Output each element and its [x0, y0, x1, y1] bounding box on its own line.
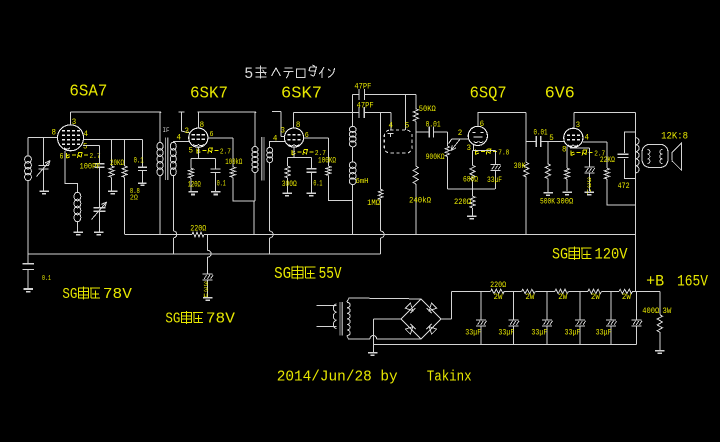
svg-text:0.1: 0.1: [134, 156, 144, 165]
tube 6SK7-2 internal grids: [287, 135, 300, 146]
svg-text:3: 3: [576, 121, 581, 130]
transformer OPT primary winding: [636, 138, 640, 173]
transformer PT secondary winding: [347, 302, 350, 335]
ground osc coil: [74, 232, 84, 235]
wire 6SK7-1 cathode: [191, 147, 216, 158]
wire IF coil bottom to SG bus: [352, 184, 354, 235]
label 33μF vertical (SG): [203, 281, 208, 299]
diode D4: [427, 324, 437, 334]
label pin 5 (detector): [405, 121, 410, 130]
label 33μF C1: [465, 328, 481, 337]
capacitor 47PF upper: [353, 89, 416, 100]
svg-text:3: 3: [185, 127, 190, 136]
wire B+ vertical to PSU: [635, 113, 637, 292]
inductor antenna coil L1: [25, 156, 32, 181]
capacitor 33μF filter C5: [606, 291, 617, 344]
inductor IF choke upper: [349, 126, 356, 146]
wire bridge negative to ground: [373, 319, 401, 352]
svg-text:22KΩ: 22KΩ: [600, 156, 615, 165]
wire PT secondary bottom to bridge: [347, 336, 421, 339]
svg-text:1MΩ: 1MΩ: [367, 199, 380, 208]
capacitor 47PF lower: [353, 107, 391, 118]
svg-text:8: 8: [52, 129, 57, 138]
label pin 4 (6SK7-2): [273, 135, 278, 144]
svg-text:6: 6: [305, 132, 309, 140]
label pin 5 (6V6): [549, 134, 554, 143]
svg-text:8: 8: [200, 121, 205, 130]
label 472: [618, 182, 630, 191]
variable capacitor VC1: [37, 161, 51, 177]
wire IFT2 primary bottom to SG bus: [253, 172, 256, 235]
resistor 50KΩ: [413, 95, 418, 133]
wire R2 to SG bus corner: [124, 177, 126, 234]
label 5球ヘテロダイン (title): [244, 65, 334, 83]
tube 6SQ7 envelope: [468, 126, 487, 145]
svg-text:220Ω: 220Ω: [490, 281, 506, 290]
label pin 3 (6SK7-2): [281, 127, 286, 136]
transformer PT primary leads: [317, 306, 337, 327]
svg-text:0.1: 0.1: [217, 179, 226, 188]
ground AVC cap: [24, 289, 34, 292]
label 33μF C5: [596, 328, 612, 337]
svg-text:5: 5: [83, 143, 88, 152]
resistor 500K (6V6 grid leak): [545, 142, 550, 192]
wire 100PF to VC2: [99, 167, 101, 208]
label 20KΩ: [110, 159, 124, 168]
svg-text:33μF: 33μF: [498, 328, 514, 337]
wire B+ top bus segment (6SA7 plate): [71, 111, 162, 113]
capacitor 33μF (6V6 cathode): [584, 167, 595, 191]
wire varcap VC1 lead: [43, 138, 45, 166]
label heater (6SK7-2): [292, 150, 326, 159]
label 400Ω 3W: [642, 307, 671, 316]
wire 0V rail: [373, 344, 636, 346]
svg-text:6SK7: 6SK7: [281, 85, 322, 104]
svg-text:8: 8: [562, 146, 567, 155]
ground 20K resistor: [108, 191, 118, 194]
resistor 100K (screen feed 1): [230, 167, 235, 177]
potentiometer 900KΩ (volume): [445, 132, 449, 189]
label pin 8 + heater (6V6): [562, 146, 605, 159]
label 500K: [540, 198, 555, 207]
svg-text:SG: SG: [274, 265, 291, 284]
svg-text:5: 5: [189, 146, 194, 155]
label 300Ω (6SK7-2): [282, 180, 297, 189]
svg-text:4: 4: [389, 121, 394, 130]
label tube 6V6: [545, 85, 575, 104]
wire 6SA7 pin4 rail: [84, 138, 143, 140]
capacitor 33μF filter C4: [575, 291, 586, 344]
label pin 6 (6SQ7): [480, 120, 485, 129]
wire IFT1 secondary top to 6SK7 grid: [173, 141, 189, 143]
wire 47PF to detector pin5: [404, 95, 406, 131]
wire 6SK7-2 cathode: [288, 147, 312, 157]
label SG電圧55V: [274, 265, 342, 284]
label pin 8 (6SA7): [52, 129, 57, 138]
capacitor 33μF filter C2: [509, 291, 520, 344]
wire 47PF to detector pin4: [390, 112, 392, 130]
label 0.1 (AVC): [42, 275, 51, 283]
svg-text:120V: 120V: [595, 246, 628, 264]
svg-text:8: 8: [296, 121, 301, 130]
svg-text:5: 5: [244, 65, 253, 83]
wire SG bypass to cap: [208, 235, 211, 274]
capacitor 0.1 (6SK7-2 cathode): [307, 158, 317, 193]
wire 6SQ7 plate to coupling: [478, 111, 526, 113]
ground VC1: [39, 191, 49, 194]
svg-text:50KΩ: 50KΩ: [419, 105, 436, 114]
svg-text:3: 3: [72, 118, 77, 127]
ground 0.1 (6SK7-2): [306, 193, 316, 196]
capacitor 33μF (6SQ7 cathode): [490, 151, 501, 189]
ground 500K: [543, 193, 553, 196]
wire rail seg6: [633, 290, 660, 292]
svg-text:12K:8: 12K:8: [661, 131, 688, 143]
ground PSU center: [368, 353, 378, 356]
svg-text:6SQ7: 6SQ7: [470, 85, 507, 104]
svg-text:33μF: 33μF: [465, 328, 481, 337]
capacitor 472 (tone): [618, 154, 629, 157]
svg-text:240kΩ: 240kΩ: [409, 196, 431, 205]
tube 6V6 envelope: [564, 128, 583, 147]
speaker voice-coil housing: [642, 144, 668, 167]
label 300Ω (6V6): [556, 198, 573, 207]
wire 6V6 pin3 stem: [573, 113, 575, 129]
resistor 100K (screen feed 2): [326, 166, 331, 175]
label pin 3 (6V6): [576, 121, 581, 130]
tube 6SK7-1 envelope: [189, 128, 208, 147]
label 47PF lower: [357, 102, 374, 111]
capacitor 0.01 (coupling): [526, 136, 564, 147]
label pin 6 (6SK7-2): [305, 132, 309, 140]
label pin 3 (6SA7): [72, 118, 77, 127]
svg-text:2W: 2W: [494, 293, 503, 302]
ground VC2: [94, 232, 104, 235]
svg-text:2: 2: [458, 129, 463, 138]
tube 6SK7-1 internal grids: [192, 135, 205, 146]
tube 6V6 internal grids: [567, 135, 580, 146]
resistor 22KΩ: [604, 168, 635, 205]
label 8.8 / 2Ω heater note: [130, 188, 140, 203]
label heater 7.8 (6SQ7): [475, 149, 509, 158]
label 680Ω: [463, 176, 478, 185]
wire PT secondary top to bridge: [347, 298, 421, 302]
resistor 680Ω (6SQ7 cathode): [470, 151, 475, 197]
label 6mH: [356, 178, 369, 186]
label 33μF C2: [498, 328, 514, 337]
label 100PF: [80, 163, 101, 172]
ground 120Ω: [188, 192, 198, 195]
tube 6SA7 envelope: [58, 125, 84, 151]
svg-text:6: 6: [480, 120, 485, 129]
label 33μF C4: [565, 328, 581, 337]
diode D3: [405, 324, 415, 334]
svg-text:30K: 30K: [514, 162, 526, 171]
svg-text:220Ω: 220Ω: [190, 225, 206, 234]
svg-text:2.7: 2.7: [220, 148, 231, 156]
svg-text:3: 3: [467, 144, 472, 153]
label 12K:8: [661, 131, 688, 143]
svg-text:6mH: 6mH: [356, 178, 369, 186]
wire IFT1 primary bottom to SG bus: [159, 175, 161, 235]
label pin 4 (detector): [389, 121, 394, 130]
wire top bus segment (6SK7-2 to IF coil): [294, 111, 353, 113]
svg-text:6: 6: [60, 152, 64, 161]
label 22KΩ: [600, 156, 615, 165]
label pin 2 (6SQ7): [458, 129, 463, 138]
svg-text:100PF: 100PF: [80, 163, 101, 172]
svg-text:0.1: 0.1: [313, 180, 322, 189]
label 2W (2): [525, 293, 534, 302]
resistor 120Ω (6SK7-1 cathode): [188, 159, 193, 191]
ground 33μF (6V6): [585, 192, 595, 195]
svg-text:3W: 3W: [662, 307, 671, 316]
wire top bus corner down to IFT2: [255, 112, 256, 147]
svg-text:0.01: 0.01: [534, 128, 548, 137]
svg-text:4: 4: [273, 135, 278, 144]
transformer PT core: [340, 302, 342, 335]
label tube 6SK7-2: [281, 85, 322, 104]
label 900KΩ: [426, 153, 445, 162]
speaker cone: [672, 143, 682, 170]
label 1MΩ: [367, 199, 380, 208]
resistor 2W (filter 5): [619, 289, 633, 293]
svg-text:78V: 78V: [206, 312, 235, 328]
wire SG bus (screen supply): [125, 234, 636, 236]
resistor 220Ω 2W (filter 1): [491, 289, 505, 293]
svg-text:6SA7: 6SA7: [69, 83, 107, 102]
svg-text:100kΩ: 100kΩ: [225, 158, 242, 167]
resistor 240kΩ (det load): [413, 132, 418, 235]
wire 6SA7 pin6 to osc coil: [65, 151, 78, 193]
svg-text:220Ω: 220Ω: [454, 198, 471, 207]
label pin 4 (6V6): [585, 134, 590, 143]
capacitor 33μF filter C6: [632, 291, 643, 344]
transformer OPT bracket: [624, 132, 635, 178]
transformer IFT1 primary: [157, 142, 163, 176]
wire B+ filter rail: [452, 290, 491, 292]
svg-text:33μF: 33μF: [565, 328, 581, 337]
svg-text:4: 4: [585, 134, 590, 143]
label pin 8 (6SK7-2): [296, 121, 301, 130]
wire top bus corner down to IFT1: [160, 112, 161, 143]
wire 6V6 screen: [583, 142, 607, 168]
label 47PF upper: [354, 83, 371, 92]
svg-text:120Ω: 120Ω: [188, 181, 201, 190]
ground cap 0.1 (6SA7): [138, 183, 147, 185]
svg-text:0.01: 0.01: [426, 120, 441, 129]
svg-text:2W: 2W: [622, 293, 631, 302]
wire IFT2 secondary top to 6SK7-2 grid: [270, 142, 285, 149]
label pin 4 (6SK7-1 grid): [177, 134, 182, 143]
label 2W (4): [591, 293, 600, 302]
wire 6SA7 pin8 to antenna coil: [28, 138, 58, 157]
transformer IFT2 secondary: [267, 147, 273, 162]
wire 6SQ7 cathode: [473, 145, 496, 151]
resistor 2W (filter 2): [522, 289, 536, 293]
svg-text:33μF: 33μF: [487, 176, 502, 185]
inductor IF choke lower (6mH): [349, 162, 356, 185]
label 50KΩ: [419, 105, 436, 114]
wire top bus segment (6SK7-1): [198, 111, 257, 113]
label tube 6SK7-1: [190, 85, 228, 104]
resistor 1M (AVC) line: [379, 112, 385, 254]
transformer IFT2 primary: [252, 146, 258, 172]
diode D1: [405, 303, 415, 313]
wire 6SK7-2 plate: [304, 138, 329, 166]
svg-text:2W: 2W: [591, 293, 600, 302]
label IFT1: [163, 127, 170, 134]
label SG電圧120V: [552, 246, 628, 264]
label 0.1 (6SK7-1): [217, 179, 226, 188]
label 0.01 (det): [426, 120, 441, 129]
wire 6SK7-2 pin8 stem: [293, 112, 295, 128]
diode bridge frame: [401, 299, 441, 339]
wire 100K to IFT2 return: [233, 177, 253, 201]
wire antenna coil to AVC bus: [27, 180, 29, 254]
svg-text:7.8: 7.8: [498, 150, 509, 158]
label pin 6 + heater 2.7 (6SA7): [60, 152, 101, 161]
svg-text:47PF: 47PF: [357, 102, 374, 111]
wire rail seg5: [602, 290, 620, 292]
wire osc coil to ground: [76, 221, 78, 232]
label 240kΩ: [409, 196, 431, 205]
label 120Ω: [188, 181, 201, 190]
wire 6SQ7 pin2 grid: [449, 139, 469, 144]
svg-text:55V: 55V: [319, 265, 343, 284]
tube 6SK7-2 envelope: [284, 128, 303, 147]
wire IFT2 secondary bottom to AVC (hop): [270, 162, 273, 254]
svg-text:2W: 2W: [525, 293, 534, 302]
wire volume bottom rail: [447, 188, 495, 190]
svg-text:78V: 78V: [103, 287, 132, 303]
svg-text:900KΩ: 900KΩ: [426, 153, 445, 162]
svg-text:500K: 500K: [540, 198, 555, 207]
resistor 220Ω inline (SG dropper): [192, 232, 204, 237]
label 220Ω (bias): [454, 198, 471, 207]
label 100kΩ: [225, 158, 242, 167]
tube 6SA7 internal grids: [62, 131, 80, 150]
label 100KΩ (2): [318, 156, 336, 165]
svg-text:SG: SG: [552, 246, 568, 264]
wire IF coil string top: [352, 95, 354, 128]
potentiometer wiper arrow: [451, 140, 460, 151]
wire rail seg3: [535, 290, 555, 292]
label pin 5 (6SA7): [83, 143, 88, 152]
wire VC2 to ground: [99, 211, 101, 231]
label 0.1 (6SA7): [134, 156, 144, 165]
resistor 400Ω 3W (bleeder): [657, 291, 662, 349]
transformer IFT2 core: [262, 137, 264, 181]
label pin 5 + heater (6SK7-1): [189, 146, 231, 156]
svg-text:472: 472: [618, 182, 630, 191]
transformer IFT1 core: [166, 138, 168, 181]
svg-text:33μF: 33μF: [531, 328, 547, 337]
svg-text:Takinx: Takinx: [427, 368, 472, 385]
ground 220Ω (bias): [467, 216, 477, 219]
svg-text:2.7: 2.7: [90, 153, 101, 161]
label 2W (5): [622, 293, 631, 302]
capacitor 0.01 (det out): [416, 127, 448, 138]
resistor 220Ω (bias): [470, 196, 475, 215]
wire 6SK7-1 plate: [208, 138, 233, 167]
tube 6SQ7 internals: [472, 133, 483, 143]
wire 6SA7 pin3 stem: [70, 112, 72, 125]
ground SG bypass cap: [203, 298, 213, 301]
transformer IFT1 secondary: [170, 142, 176, 176]
svg-text:680Ω: 680Ω: [463, 176, 478, 185]
svg-text:6SK7: 6SK7: [190, 85, 228, 104]
ground 300Ω (6V6): [562, 192, 572, 195]
wire IF coil middle: [352, 146, 354, 162]
svg-text:33μF: 33μF: [596, 328, 612, 337]
label 220Ω (SG): [190, 225, 206, 234]
svg-text:2W: 2W: [558, 293, 567, 302]
label SG電圧78V (first): [62, 287, 132, 304]
svg-text:165V: 165V: [677, 273, 709, 291]
wire VC1 to ground: [43, 169, 45, 191]
inductor oscillator coil L2: [74, 192, 81, 222]
svg-text:100KΩ: 100KΩ: [318, 156, 336, 165]
capacitor 33μF filter C1: [476, 291, 487, 344]
label date/credit: [277, 368, 472, 385]
wire top bus segment (6SQ7): [478, 111, 527, 113]
svg-text:+B: +B: [646, 273, 664, 291]
svg-text:2Ω: 2Ω: [130, 195, 138, 203]
label tube 6SQ7: [470, 85, 507, 104]
label SG電圧78V (second): [165, 311, 235, 328]
resistor 20K (osc grid): [109, 139, 114, 191]
transformer PT primary winding: [333, 304, 336, 329]
wire 6SK7-2 grid cap lead: [272, 112, 285, 137]
label pin 8 (6SK7-1): [200, 121, 205, 130]
capacitor 0.1 (6SK7-1 cathode): [211, 159, 221, 191]
wire 6SK7-1 grid cap lead: [178, 112, 189, 133]
label 33μF (6SQ7): [487, 176, 502, 185]
svg-text:0.1: 0.1: [42, 275, 51, 283]
label pin 3 (6SK7-1): [185, 127, 190, 136]
svg-text:3: 3: [281, 127, 286, 136]
wire 6SA7 pin5 lead: [83, 146, 100, 164]
capacitor 0.1 (AVC filter): [22, 254, 34, 288]
svg-text:4: 4: [84, 130, 89, 139]
label 33μF C3: [531, 328, 547, 337]
label 220Ω 2W: [490, 281, 506, 302]
ground 0.1 (6SK7-1): [211, 192, 221, 195]
svg-text:47PF: 47PF: [354, 83, 371, 92]
resistor 30K (decoupler): [524, 162, 529, 234]
svg-text:SG: SG: [165, 312, 180, 328]
capacitor 100PF: [95, 164, 105, 167]
label +B 165V: [646, 273, 708, 291]
wire rail seg4: [568, 290, 588, 292]
svg-text:IF: IF: [163, 127, 170, 134]
svg-text:300Ω: 300Ω: [282, 180, 297, 189]
wire coupling node vertical: [525, 112, 527, 162]
label 30K: [514, 162, 526, 171]
svg-text:6V6: 6V6: [545, 85, 575, 104]
ground 300Ω (6SK7-2): [282, 193, 292, 196]
label pin 3 (6SQ7): [467, 144, 472, 153]
svg-text:400Ω: 400Ω: [642, 307, 659, 316]
label tube 6SA7: [69, 83, 107, 102]
label 0.1 (6SK7-2): [313, 180, 322, 189]
wire rail seg2: [504, 290, 522, 292]
wire 6V6 cathode: [567, 147, 589, 169]
tube detector diode (phantom dashed): [384, 130, 412, 153]
wire 6SQ7 pin6 stem: [477, 112, 479, 126]
svg-text:6: 6: [210, 131, 214, 139]
